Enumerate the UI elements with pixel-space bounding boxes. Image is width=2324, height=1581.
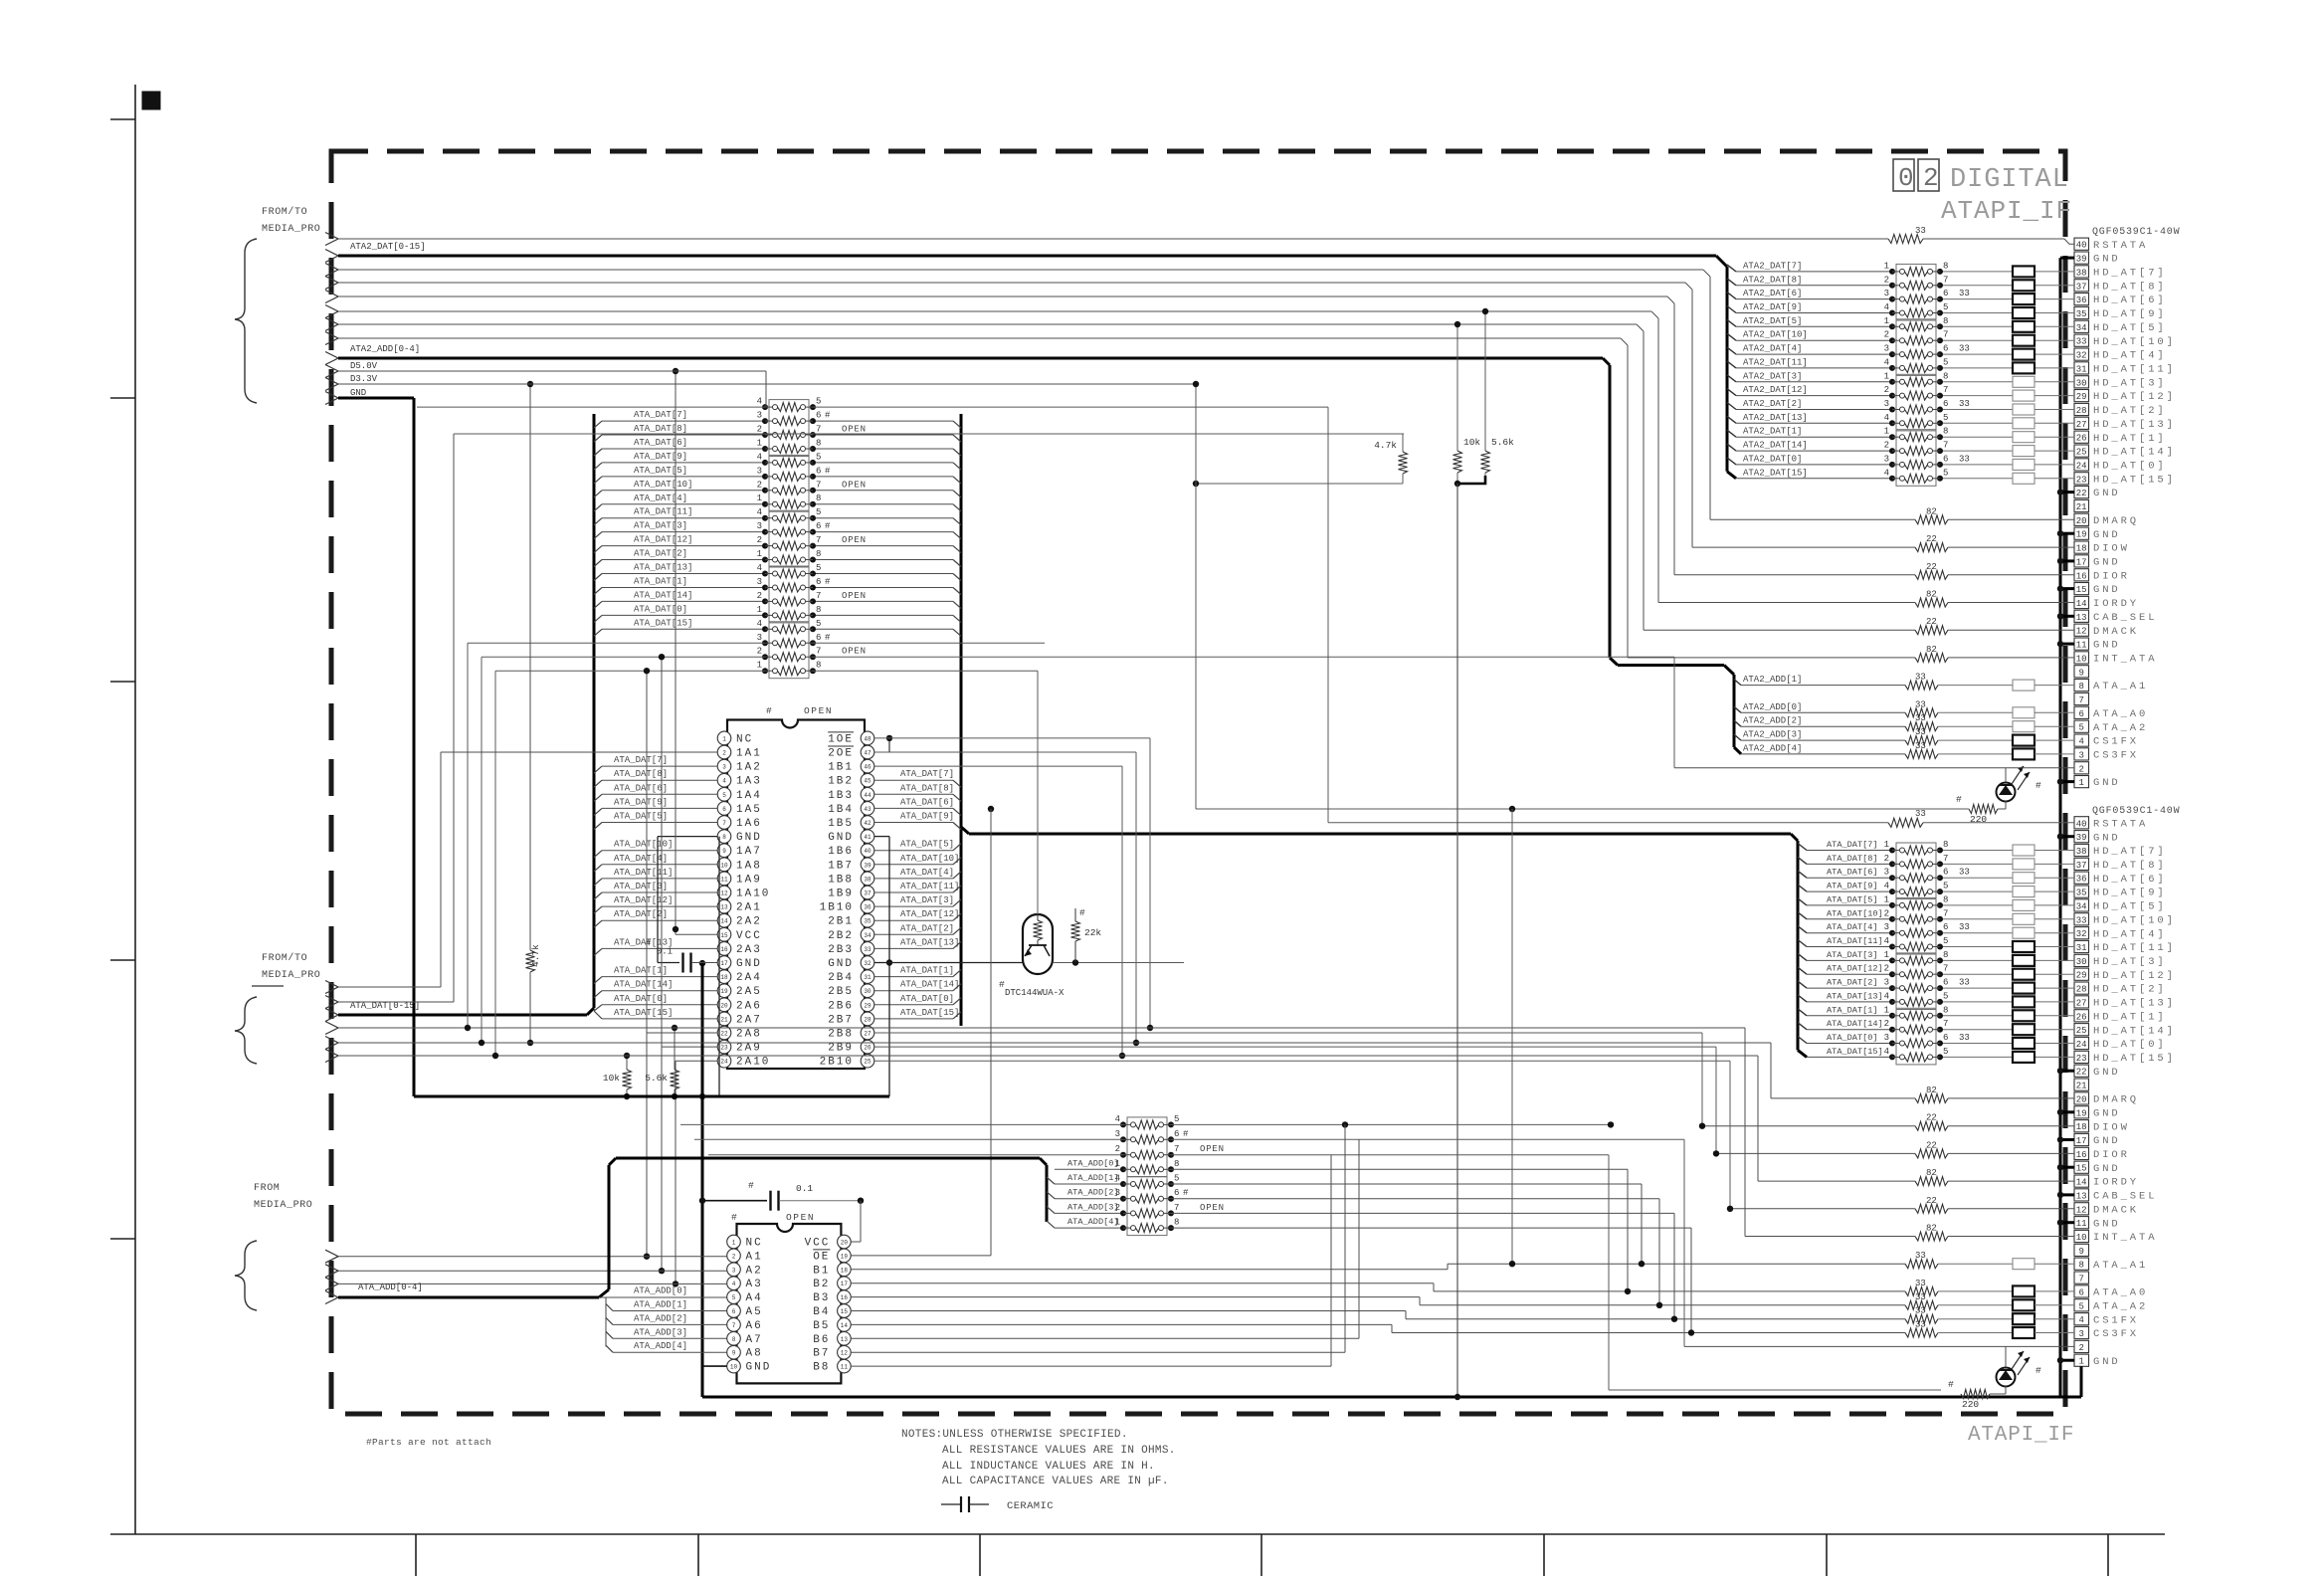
svg-text:8: 8: [816, 494, 821, 503]
svg-text:ATA_DAT[15]: ATA_DAT[15]: [900, 1008, 959, 1018]
connector CN1 pin boxes and numbers: [2074, 238, 2089, 788]
svg-text:ATA_DAT[11]: ATA_DAT[11]: [900, 882, 959, 891]
svg-text:ATA_ADD[0-4]: ATA_ADD[0-4]: [358, 1283, 423, 1292]
wire+resistor 22 to CN2 pin 18 DIOW: [1702, 1113, 2074, 1131]
svg-text:0.1: 0.1: [796, 1183, 813, 1194]
svg-text:6: 6: [816, 466, 821, 476]
svg-text:16: 16: [2076, 1150, 2087, 1160]
svg-text:1A5: 1A5: [736, 804, 762, 816]
wire D5.0V vertical to top spare row: [765, 371, 767, 407]
wire+resistor 82 to CN1 pin 10 INT_ATA: [338, 338, 2074, 662]
wire entry to IC U2 A1: [338, 1256, 727, 1258]
labels ATA_DAT mid resnet: [634, 410, 692, 628]
svg-text:31: 31: [2076, 364, 2087, 374]
svg-text:ATA_DAT[0]: ATA_DAT[0]: [614, 994, 668, 1004]
wire+resistor 22 to CN1 pin 18 DIOW: [338, 283, 2074, 552]
svg-text:OPEN: OPEN: [842, 535, 867, 545]
svg-text:3: 3: [1884, 868, 1889, 878]
wire+resistor 33 to CN2 pin 8 ATA_A1: [1448, 1251, 2074, 1270]
wire IC U2 VCC riser: [851, 1201, 861, 1242]
svg-text:ATA_DAT[14]: ATA_DAT[14]: [1827, 1019, 1883, 1029]
svg-text:ATA_DAT[9]: ATA_DAT[9]: [900, 812, 954, 822]
wire IC U1 2A10 to IC U2 A3: [673, 1061, 717, 1286]
resistor network RNM1 (mid, OPEN): [757, 397, 867, 457]
svg-text:11: 11: [2076, 641, 2087, 651]
wire IC U2 OE to riser x996: [851, 809, 991, 1256]
svg-text:HD_AT[11]: HD_AT[11]: [2093, 942, 2176, 954]
svg-text:33: 33: [1915, 699, 1926, 709]
svg-text:GND: GND: [2093, 832, 2121, 844]
svg-text:2: 2: [1923, 163, 1939, 193]
svg-text:5: 5: [722, 792, 726, 799]
svg-text:8: 8: [1943, 427, 1948, 437]
svg-text:#: #: [748, 1180, 754, 1191]
svg-text:12: 12: [2076, 1205, 2087, 1215]
resistor network RNM2 (mid, OPEN): [757, 452, 867, 511]
svg-text:ATA_DAT[5]: ATA_DAT[5]: [634, 466, 687, 476]
svg-text:#: #: [2035, 780, 2041, 791]
svg-text:1B10: 1B10: [820, 902, 854, 914]
svg-text:3: 3: [1884, 344, 1889, 354]
svg-text:HD_AT[10]: HD_AT[10]: [2093, 914, 2176, 926]
svg-text:ATA_ADD[3]: ATA_ADD[3]: [634, 1327, 687, 1337]
svg-text:4: 4: [1884, 1047, 1889, 1057]
svg-text:2: 2: [1884, 908, 1889, 918]
op IC U2 20-pin buffer body: [731, 1212, 841, 1383]
svg-text:A1: A1: [746, 1251, 763, 1263]
svg-text:7: 7: [816, 535, 821, 545]
wire OE tie at IC U1 right: [874, 735, 892, 963]
wire+resistor 33 ATA2_ADD[4] to CN1 pin 3: [1741, 741, 2074, 760]
wire+resistor 33 to CN2 pin 5 ATA_A2: [1420, 1292, 2074, 1311]
svg-text:7: 7: [1943, 908, 1948, 918]
svg-text:INT_ATA: INT_ATA: [2093, 1232, 2157, 1244]
svg-text:INT_ATA: INT_ATA: [2093, 654, 2157, 666]
svg-text:36: 36: [2076, 875, 2087, 885]
svg-text:HD_AT[5]: HD_AT[5]: [2093, 901, 2167, 913]
svg-text:6: 6: [1943, 289, 1948, 298]
wire entry to IC U2 A3: [338, 1283, 727, 1285]
svg-text:HD_AT[0]: HD_AT[0]: [2093, 1039, 2167, 1051]
wire 1B1 row to vertical x1128: [874, 766, 1125, 1059]
svg-text:HD_AT[11]: HD_AT[11]: [2093, 364, 2176, 376]
svg-text:ATAPI_IF: ATAPI_IF: [1968, 1424, 2074, 1447]
svg-text:1: 1: [1884, 427, 1889, 437]
svg-text:33: 33: [2076, 915, 2087, 925]
svg-text:OPEN: OPEN: [786, 1212, 815, 1223]
svg-text:DIOW: DIOW: [2093, 543, 2130, 555]
svg-text:24: 24: [2076, 461, 2087, 471]
svg-text:GND: GND: [2093, 254, 2121, 266]
svg-text:ATA_DAT[6]: ATA_DAT[6]: [634, 438, 687, 448]
svg-text:DMACK: DMACK: [2093, 626, 2139, 638]
svg-text:#: #: [825, 466, 831, 476]
svg-text:#: #: [2035, 1365, 2041, 1376]
svg-text:4: 4: [1884, 413, 1889, 423]
svg-text:B3: B3: [813, 1292, 830, 1304]
svg-text:12: 12: [2076, 627, 2087, 637]
svg-text:GND: GND: [2093, 777, 2121, 789]
svg-text:2OE: 2OE: [828, 748, 854, 760]
svg-text:8: 8: [816, 605, 821, 615]
svg-text:1A6: 1A6: [736, 818, 762, 830]
svg-text:11: 11: [720, 876, 728, 883]
svg-text:DIOR: DIOR: [2093, 570, 2130, 582]
svg-text:10k: 10k: [603, 1073, 620, 1084]
svg-text:2: 2: [1884, 385, 1889, 395]
svg-text:17: 17: [841, 1281, 849, 1287]
svg-text:ATA_ADD[4]: ATA_ADD[4]: [634, 1341, 687, 1351]
wire mid resnet spare row 19 to LED1 cathode: [482, 657, 1674, 1043]
svg-text:ATA_ADD[0]: ATA_ADD[0]: [1067, 1158, 1119, 1168]
svg-text:6: 6: [1943, 978, 1948, 988]
svg-text:7: 7: [722, 820, 726, 827]
svg-text:33: 33: [1915, 1292, 1926, 1302]
svg-text:22: 22: [1926, 1140, 1937, 1150]
svg-text:HD_AT[10]: HD_AT[10]: [2093, 336, 2176, 348]
svg-text:ALL INDUCTANCE VALUES ARE IN H: ALL INDUCTANCE VALUES ARE IN H.: [942, 1461, 1155, 1473]
svg-text:14: 14: [841, 1322, 849, 1329]
ferrite bead array CN1 data rows: [2013, 266, 2034, 484]
svg-text:7: 7: [816, 647, 821, 657]
brace bottom entry group: [235, 1241, 257, 1310]
svg-text:GND: GND: [350, 388, 366, 398]
svg-text:3: 3: [757, 577, 762, 587]
svg-text:ATA_ADD[2]: ATA_ADD[2]: [1067, 1188, 1119, 1198]
svg-text:33: 33: [1915, 1320, 1926, 1330]
entry chevrons middle group: [325, 981, 338, 1063]
svg-text:4: 4: [1884, 882, 1889, 891]
svg-text:GND: GND: [828, 958, 854, 970]
svg-text:GND: GND: [2093, 584, 2121, 596]
wire mid entry B to IC U1 2A4 region: [338, 434, 1404, 1002]
svg-text:5: 5: [1943, 991, 1948, 1001]
svg-text:ATA_DAT[9]: ATA_DAT[9]: [1827, 882, 1878, 891]
svg-text:3: 3: [732, 1267, 736, 1274]
wire+resistor 33 ATA2_ADD[3] to CN1 pin 4: [1734, 727, 2074, 746]
svg-text:17: 17: [720, 960, 728, 967]
svg-text:QGF0539C1-40W: QGF0539C1-40W: [2092, 806, 2180, 817]
svg-text:6: 6: [1943, 399, 1948, 409]
svg-text:ATA2_ADD[2]: ATA2_ADD[2]: [1743, 716, 1802, 726]
svg-text:GND: GND: [828, 832, 854, 844]
svg-text:13: 13: [2076, 1191, 2087, 1201]
svg-text:4: 4: [757, 563, 762, 573]
svg-text:GND: GND: [2093, 1067, 2121, 1079]
svg-text:4.7k: 4.7k: [530, 944, 541, 967]
svg-text:GND: GND: [736, 832, 762, 844]
svg-text:ATAPI_IF: ATAPI_IF: [1941, 196, 2072, 226]
svg-text:1: 1: [1884, 840, 1889, 850]
svg-text:33: 33: [1915, 1251, 1926, 1261]
svg-text:29: 29: [2076, 392, 2087, 402]
svg-text:HD_AT[5]: HD_AT[5]: [2093, 322, 2167, 334]
labels IC U1 right data pins: [900, 769, 959, 1018]
svg-text:2B10: 2B10: [820, 1057, 854, 1069]
resistor network RNM5 (mid, OPEN): [757, 619, 867, 679]
wire IC U1 1A1 from mid entry: [441, 752, 717, 987]
svg-text:38: 38: [2076, 847, 2087, 857]
svg-text:32: 32: [2076, 351, 2087, 361]
svg-text:ATA_DAT[9]: ATA_DAT[9]: [634, 452, 687, 462]
svg-text:18: 18: [720, 974, 728, 981]
svg-text:17: 17: [2076, 557, 2087, 567]
resistor network RNL1 (lower, OPEN): [1115, 1114, 1225, 1177]
svg-text:HD_AT[14]: HD_AT[14]: [2093, 447, 2176, 459]
wire E vertical to CN2 DMARQ: [1770, 1043, 1772, 1098]
bus ATA2_DAT[0-15] top horizontal: [338, 242, 1716, 256]
svg-text:4: 4: [757, 397, 762, 407]
svg-text:5: 5: [1943, 413, 1948, 423]
svg-text:82: 82: [1926, 1168, 1937, 1178]
svg-text:HD_AT[4]: HD_AT[4]: [2093, 350, 2167, 362]
svg-text:QGF0539C1-40W: QGF0539C1-40W: [2092, 227, 2180, 238]
svg-text:2B9: 2B9: [828, 1043, 854, 1055]
svg-text:HD_AT[3]: HD_AT[3]: [2093, 377, 2167, 389]
wire mid resnet spare row 20: [495, 671, 1038, 1056]
svg-text:5.6k: 5.6k: [1491, 437, 1514, 448]
wire mid entry E: [338, 1040, 1771, 1046]
svg-text:21: 21: [2076, 502, 2087, 512]
svg-text:A7: A7: [746, 1334, 763, 1346]
title sheet number 02 DIGITAL: [1893, 159, 2069, 195]
svg-text:46: 46: [864, 764, 871, 771]
svg-text:11: 11: [841, 1364, 849, 1371]
svg-text:39: 39: [864, 862, 871, 869]
svg-text:8: 8: [2078, 1261, 2083, 1271]
svg-text:GND: GND: [2093, 529, 2121, 541]
svg-text:ATA_DAT[11]: ATA_DAT[11]: [1827, 936, 1883, 946]
svg-text:5: 5: [816, 452, 821, 462]
wire IC U2 B6 riser: [851, 1139, 1359, 1338]
svg-text:ATA_DAT[12]: ATA_DAT[12]: [634, 535, 692, 545]
resistor 33 RSTATA row CN1: [338, 226, 2074, 244]
svg-text:33: 33: [1915, 673, 1926, 683]
svg-text:2: 2: [2078, 1343, 2083, 1353]
svg-text:2B1: 2B1: [828, 916, 854, 928]
svg-text:22: 22: [720, 1031, 728, 1038]
svg-text:5: 5: [1943, 302, 1948, 312]
svg-text:14: 14: [2076, 1178, 2087, 1188]
svg-text:ATA2_DAT[3]: ATA2_DAT[3]: [1743, 371, 1802, 381]
svg-text:1: 1: [1884, 894, 1889, 904]
resistor 4.7k (left) on D3.3V pulldown: [526, 381, 542, 1046]
wire IC U1 GND ring: [699, 837, 892, 1096]
svg-text:HD_AT[12]: HD_AT[12]: [2093, 391, 2176, 403]
svg-text:#: #: [1183, 1188, 1189, 1198]
svg-text:ATA_ADD[4]: ATA_ADD[4]: [1067, 1217, 1119, 1227]
svg-text:2A5: 2A5: [736, 986, 762, 998]
svg-text:22: 22: [1926, 534, 1937, 544]
svg-text:A2: A2: [746, 1265, 763, 1277]
svg-text:11: 11: [2076, 1219, 2087, 1229]
svg-text:2: 2: [1884, 964, 1889, 974]
svg-text:8: 8: [1943, 316, 1948, 326]
svg-text:14: 14: [720, 918, 728, 925]
svg-text:B4: B4: [813, 1306, 830, 1318]
svg-text:ATA_DAT[7]: ATA_DAT[7]: [900, 769, 954, 779]
svg-text:20: 20: [2076, 516, 2087, 526]
wires ATA_DAT rows to resistor networks CN2: [1807, 851, 2074, 1058]
svg-text:5: 5: [816, 619, 821, 629]
svg-text:3: 3: [757, 411, 762, 421]
resistor network RNM4 (mid, OPEN): [757, 563, 867, 623]
svg-text:1: 1: [1115, 1159, 1120, 1169]
svg-text:20: 20: [2076, 1094, 2087, 1104]
svg-text:2: 2: [757, 480, 762, 490]
wire+resistor 33 ATA2_ADD[2] to CN1 pin 5: [1734, 713, 2074, 732]
svg-text:4: 4: [1884, 991, 1889, 1001]
IC U2 pin names: [746, 1238, 831, 1374]
svg-text:ATA2_DAT[11]: ATA2_DAT[11]: [1743, 357, 1808, 367]
wire IC U2 B8 riser: [851, 1155, 1331, 1366]
svg-text:FROM/TO: FROM/TO: [262, 206, 307, 218]
wire IC U2 B4 to CN2 pin 4: [851, 1311, 1406, 1319]
svg-text:ATA2_DAT[6]: ATA2_DAT[6]: [1743, 289, 1802, 298]
svg-text:4: 4: [722, 778, 726, 785]
svg-text:HD_AT[0]: HD_AT[0]: [2093, 461, 2167, 473]
svg-text:FROM/TO: FROM/TO: [262, 952, 307, 964]
wire+resistor 82 to CN1 pin 20 DMARQ: [338, 270, 2074, 524]
svg-text:6: 6: [1174, 1129, 1179, 1139]
svg-text:48: 48: [864, 735, 871, 742]
svg-text:ATA_DAT[12]: ATA_DAT[12]: [614, 895, 673, 905]
svg-text:ATA2_DAT[8]: ATA2_DAT[8]: [1743, 275, 1802, 285]
svg-text:2: 2: [1884, 275, 1889, 285]
svg-text:2A6: 2A6: [736, 1000, 762, 1012]
svg-text:ATA_DAT[13]: ATA_DAT[13]: [634, 563, 692, 573]
svg-text:6: 6: [1943, 868, 1948, 878]
svg-text:7: 7: [1943, 385, 1948, 395]
svg-text:HD_AT[13]: HD_AT[13]: [2093, 419, 2176, 431]
page border ruler left: [110, 85, 135, 1534]
wire IC U2 GND stub: [702, 1365, 727, 1367]
svg-text:ATA2_DAT[10]: ATA2_DAT[10]: [1743, 330, 1808, 340]
svg-text:1B5: 1B5: [828, 818, 854, 830]
wire+resistor 33 to CN2 pin 4 CS1FX: [1406, 1306, 2074, 1325]
svg-text:3: 3: [757, 633, 762, 643]
svg-text:ATA2_ADD[1]: ATA2_ADD[1]: [1743, 675, 1802, 685]
svg-text:7: 7: [1943, 964, 1948, 974]
svg-text:ATA2_DAT[12]: ATA2_DAT[12]: [1743, 385, 1808, 395]
svg-text:8: 8: [1943, 371, 1948, 381]
svg-text:24: 24: [720, 1059, 728, 1066]
bottom label ATAPI_IF: [1968, 1424, 2074, 1447]
svg-text:ATA2_DAT[4]: ATA2_DAT[4]: [1743, 344, 1802, 354]
svg-text:ATA_DAT[4]: ATA_DAT[4]: [900, 868, 954, 878]
svg-text:B8: B8: [813, 1362, 830, 1374]
svg-text:1: 1: [1884, 261, 1889, 271]
svg-text:#: #: [825, 521, 831, 531]
svg-text:A4: A4: [746, 1292, 763, 1304]
svg-text:2: 2: [757, 591, 762, 601]
wire GND horizontal mid: [414, 1093, 889, 1099]
svg-text:1B3: 1B3: [828, 790, 854, 802]
svg-text:43: 43: [864, 806, 871, 813]
svg-text:38: 38: [864, 876, 871, 883]
svg-text:1A4: 1A4: [736, 790, 762, 802]
svg-text:MEDIA_PRO: MEDIA_PRO: [254, 1200, 312, 1211]
svg-text:ATA_DAT[6]: ATA_DAT[6]: [900, 797, 954, 807]
svg-text:8: 8: [816, 661, 821, 671]
svg-text:82: 82: [1926, 645, 1937, 655]
svg-text:5: 5: [732, 1294, 736, 1301]
IC U2 pin circles: [727, 1235, 852, 1373]
svg-text:HD_AT[1]: HD_AT[1]: [2093, 433, 2167, 445]
svg-text:27: 27: [2076, 420, 2087, 430]
wire GND vertical to bottom rail: [701, 963, 704, 1397]
svg-text:47: 47: [864, 750, 871, 757]
wire IC U1 2B10 to CN2 DMACK: [874, 1061, 1733, 1212]
wires ATA2_DAT rows to resistor networks CN1: [1736, 272, 2074, 479]
wire IC U2 B7 riser: [851, 1124, 1345, 1352]
svg-text:36: 36: [2076, 296, 2087, 305]
connector CN2 pin name labels: [2093, 818, 2176, 1367]
svg-text:1: 1: [757, 439, 762, 449]
svg-text:2A10: 2A10: [736, 1057, 770, 1069]
svg-text:#: #: [825, 411, 831, 421]
svg-text:4: 4: [1115, 1174, 1120, 1184]
svg-text:22k: 22k: [1084, 927, 1101, 938]
LED D2 with 220 resistor (CN2): [1948, 1346, 2041, 1410]
svg-text:ATA_DAT[12]: ATA_DAT[12]: [1827, 964, 1883, 974]
resistor network RNM3 (mid, OPEN): [757, 507, 867, 567]
svg-text:3: 3: [757, 466, 762, 476]
svg-text:ATA_A2: ATA_A2: [2093, 1300, 2148, 1312]
svg-text:13: 13: [720, 904, 728, 911]
wire Q1 base from IC U1 GND32 row: [889, 962, 1023, 964]
svg-text:5: 5: [816, 397, 821, 407]
svg-text:45: 45: [864, 778, 871, 785]
svg-text:5: 5: [2078, 1301, 2083, 1311]
wire D5.0V rail: [338, 361, 766, 371]
svg-text:ATA_DAT[13]: ATA_DAT[13]: [1827, 991, 1883, 1001]
bus ATA_DAT horizontal to CN2: [969, 833, 1791, 836]
wire mid entry D: [338, 1025, 1745, 1031]
svg-text:19: 19: [841, 1253, 849, 1260]
wire D3.3V rail: [338, 374, 1199, 387]
svg-text:14: 14: [2076, 599, 2087, 609]
wire IC U1 2A9 to IC U2 A2: [659, 654, 717, 1274]
svg-text:8: 8: [1174, 1218, 1179, 1228]
svg-text:7: 7: [1174, 1203, 1179, 1213]
svg-text:8: 8: [1943, 950, 1948, 960]
svg-text:HD_AT[2]: HD_AT[2]: [2093, 405, 2167, 417]
connector CN2 QGF0539C1-40W header: [2092, 806, 2180, 817]
svg-text:31: 31: [864, 974, 871, 981]
svg-text:DMARQ: DMARQ: [2093, 1094, 2139, 1106]
svg-text:HD_AT[9]: HD_AT[9]: [2093, 888, 2167, 899]
svg-text:2A8: 2A8: [736, 1029, 762, 1041]
svg-text:44: 44: [864, 792, 871, 799]
svg-text:4: 4: [1884, 936, 1889, 946]
svg-text:3: 3: [1884, 289, 1889, 298]
svg-text:34: 34: [2076, 323, 2087, 333]
connector CN2 pin boxes and numbers: [2074, 817, 2089, 1367]
svg-text:GND: GND: [2093, 1135, 2121, 1147]
svg-text:2B4: 2B4: [828, 972, 854, 984]
svg-text:D3.3V: D3.3V: [350, 374, 378, 384]
svg-text:ATA_ADD[3]: ATA_ADD[3]: [1067, 1202, 1119, 1212]
svg-text:ATA_DAT[5]: ATA_DAT[5]: [614, 812, 668, 822]
svg-text:A6: A6: [746, 1320, 763, 1332]
svg-text:33: 33: [1959, 868, 1970, 878]
svg-text:4: 4: [757, 507, 762, 517]
svg-text:33: 33: [1959, 399, 1970, 409]
svg-text:25: 25: [2076, 1026, 2087, 1036]
svg-text:2A9: 2A9: [736, 1043, 762, 1055]
svg-text:2A3: 2A3: [736, 944, 762, 956]
